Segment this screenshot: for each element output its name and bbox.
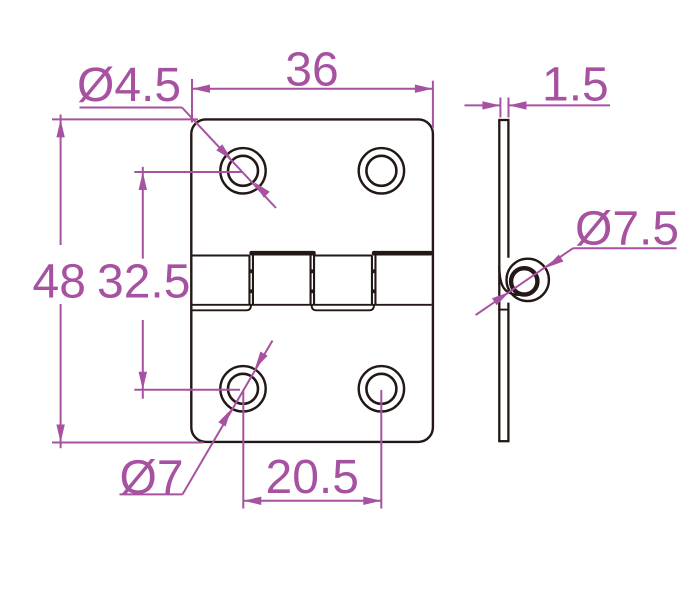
dim 48 extension bottom — [52, 442, 204, 444]
dim 1.5 line right — [509, 104, 611, 106]
side strip band tick — [498, 309, 509, 311]
hinge leaf outline (front view) — [191, 119, 433, 442]
dim 7 leader underline — [120, 493, 183, 495]
hole bottom-left outer — [220, 366, 265, 411]
dim 48 extension top — [52, 118, 198, 120]
svg-text:48: 48 — [33, 256, 86, 309]
lower knuckle line under segment 1 — [191, 305, 251, 310]
hole top-right inner — [366, 156, 396, 186]
band top line segment 1 — [193, 255, 250, 257]
arrow 4.5 lower — [254, 182, 270, 198]
arrow 48 top — [56, 119, 64, 137]
arrow 20.5 right — [363, 497, 381, 505]
dim 32.5 extension bottom — [134, 389, 240, 391]
dim 7 leader diagonal — [183, 341, 273, 495]
dim 32.5 extension top — [134, 171, 243, 173]
svg-text:20.5: 20.5 — [266, 451, 359, 504]
dim 48 line lower — [60, 304, 62, 448]
band bottom line — [193, 304, 432, 306]
knuckle thick top cap 4 — [372, 251, 433, 256]
dim 20.5 line — [243, 500, 381, 502]
hole bottom-right outer — [359, 366, 404, 411]
arrow 7 upper — [255, 352, 268, 369]
arrow 32.5 top — [139, 172, 147, 190]
svg-text:32.5: 32.5 — [97, 256, 190, 309]
side strip left edge — [498, 120, 500, 441]
knuckle separator left (double line) — [248, 255, 250, 305]
arrow 48 bottom — [56, 425, 64, 443]
barrel outer circle — [507, 259, 549, 301]
dim 1.5 tail left — [465, 104, 501, 106]
dim 7.5 leader diagonal — [476, 248, 573, 315]
arrowheads — [56, 85, 563, 506]
side strip top cap — [498, 119, 509, 121]
band top line segment 3 — [314, 255, 372, 257]
side strip right edge lower — [507, 303, 509, 442]
barrel curl — [499, 266, 520, 295]
dim 20.5 extension right — [380, 390, 382, 509]
hole top-left outer — [220, 148, 265, 193]
side strip bottom cap — [498, 440, 509, 442]
dim 4.5 leader underline — [80, 107, 183, 109]
knuckle thick top cap 2 — [249, 251, 315, 256]
knuckle separator left joint ticks — [249, 269, 253, 273]
arrow 7.5 upper — [546, 255, 563, 268]
dim 7.5 leader underline — [573, 247, 677, 249]
dim 48 line upper — [60, 115, 62, 246]
dim 20.5 extension left — [242, 390, 244, 509]
knuckle separator right joint ticks — [372, 269, 376, 273]
knuckle separator right (double line) — [371, 255, 373, 305]
side strip right edge upper — [507, 120, 509, 258]
dim 36 extension left — [191, 79, 193, 123]
arrow 20.5 left — [243, 497, 261, 505]
arrow 32.5 bottom — [139, 372, 147, 390]
dim 36 extension right — [432, 81, 434, 129]
hole bottom-right inner — [366, 374, 396, 404]
arrow 4.5 upper — [216, 144, 232, 160]
svg-text:36: 36 — [285, 44, 338, 97]
svg-text:1.5: 1.5 — [542, 59, 609, 112]
dim 1.5 extension right — [508, 98, 510, 118]
dim 32.5 line upper — [142, 167, 144, 259]
arrow 36 right — [415, 85, 433, 93]
arrow 1.5 right — [509, 101, 527, 109]
svg-text:Ø7.5: Ø7.5 — [575, 203, 679, 256]
knuckle separator middle (double line) — [309, 255, 311, 305]
dimensions (magenta) — [52, 79, 677, 509]
dimension texts — [33, 44, 680, 505]
arrow 7.5 lower — [492, 292, 509, 305]
svg-text:Ø7: Ø7 — [120, 452, 184, 505]
dim 4.5 leader diagonal — [182, 108, 276, 209]
dim 1.5 extension left — [499, 98, 501, 118]
pin circle — [511, 268, 537, 294]
arrow 36 left — [192, 85, 210, 93]
knuckle separator middle joint ticks — [311, 269, 315, 273]
side view — [498, 120, 549, 441]
arrow 1.5 left — [482, 101, 500, 109]
dim 36 line — [192, 88, 433, 90]
hole top-right outer — [359, 148, 404, 193]
dim 32.5 line lower — [142, 320, 144, 399]
hole bottom-left inner — [228, 374, 258, 404]
svg-text:Ø4.5: Ø4.5 — [77, 59, 181, 112]
hinge knuckle band — [191, 255, 431, 310]
arrow 7 lower — [218, 409, 231, 426]
lower knuckle line under segment 3 — [312, 305, 374, 310]
hole top-left inner — [228, 156, 258, 186]
